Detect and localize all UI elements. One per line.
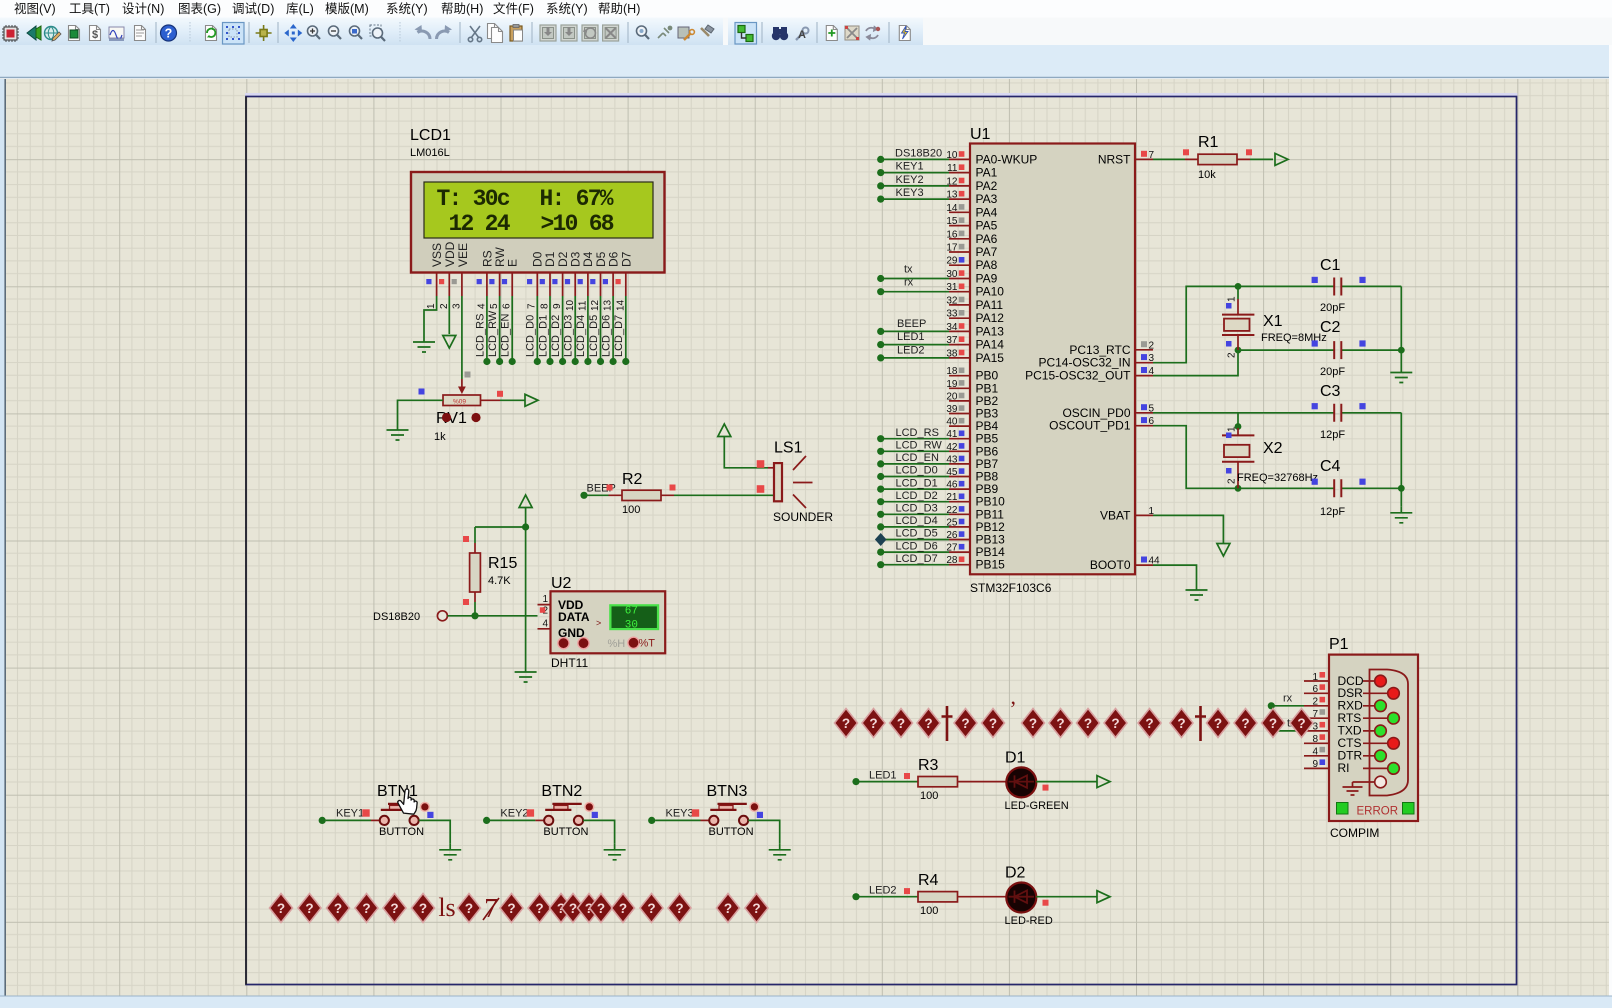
P1 error squares bbox=[1337, 803, 1349, 815]
terminal KEY1 bbox=[319, 817, 326, 824]
capacitor C3 12pF bbox=[1312, 383, 1366, 441]
terminal LED2 bbox=[852, 893, 859, 900]
power terminal up (R15/DHT11 rail) bbox=[519, 495, 532, 508]
U1 left pin stubs bbox=[949, 159, 970, 564]
junction C4 rail bbox=[1398, 485, 1405, 492]
svg-text:$: $ bbox=[92, 29, 98, 41]
svg-text:BTN2: BTN2 bbox=[541, 783, 582, 800]
wire OSCOUT_PD1 to X2.2/C4 bbox=[1153, 426, 1401, 489]
svg-text:KEY3: KEY3 bbox=[666, 808, 694, 820]
button BTN2 bbox=[541, 783, 598, 838]
svg-text:库(L): 库(L) bbox=[286, 1, 314, 16]
svg-text:2: 2 bbox=[1227, 478, 1238, 484]
svg-text:KEY3: KEY3 bbox=[896, 187, 924, 199]
svg-text:5: 5 bbox=[489, 303, 500, 309]
svg-text:PA5: PA5 bbox=[976, 219, 998, 233]
svg-text:D4: D4 bbox=[581, 251, 595, 267]
svg-text:文件(F): 文件(F) bbox=[493, 1, 534, 16]
wire tx to P1 TXD bbox=[1278, 730, 1305, 732]
svg-text:1: 1 bbox=[1227, 296, 1238, 302]
wire VEE down to RV1 wiper bbox=[461, 296, 463, 379]
svg-text:LED-GREEN: LED-GREEN bbox=[1005, 800, 1069, 812]
svg-text:BTN1: BTN1 bbox=[377, 783, 418, 800]
svg-text:LCD_D1: LCD_D1 bbox=[538, 315, 550, 357]
button BTN1 bbox=[377, 783, 434, 838]
svg-text:PA7: PA7 bbox=[976, 245, 998, 259]
svg-text:LCD_EN: LCD_EN bbox=[500, 314, 512, 357]
svg-text:1: 1 bbox=[542, 594, 548, 605]
mouse cursor bbox=[397, 788, 419, 814]
svg-text:系统(Y): 系统(Y) bbox=[386, 2, 428, 16]
power terminal right (NRST pullup) bbox=[1275, 153, 1288, 165]
svg-text:PA13: PA13 bbox=[976, 324, 1005, 338]
svg-text:帮助(H): 帮助(H) bbox=[598, 2, 640, 16]
wire R15 top rail bbox=[475, 526, 526, 528]
power terminal right (D2) bbox=[1097, 891, 1110, 903]
svg-text:>: > bbox=[596, 618, 601, 628]
svg-text:LS1: LS1 bbox=[774, 440, 803, 457]
svg-text:7: 7 bbox=[1312, 709, 1318, 720]
svg-text:PB15: PB15 bbox=[976, 558, 1006, 572]
IC U1 STM32F103C6 body bbox=[970, 126, 1135, 595]
svg-text:DHT11: DHT11 bbox=[551, 656, 588, 670]
capacitor C1 20pF bbox=[1312, 257, 1366, 314]
svg-text:T: 30c: T: 30c bbox=[437, 186, 510, 212]
wire LED2 to R bbox=[860, 896, 919, 898]
svg-text:2: 2 bbox=[1312, 697, 1318, 708]
resistor R2 100 bbox=[609, 471, 676, 516]
button BTN3 bbox=[707, 783, 764, 838]
wire BTN3 to ground bbox=[748, 820, 780, 843]
wire OSCIN_PD0 to X2.1/C3 bbox=[1153, 413, 1401, 428]
ground (BOOT0) bbox=[1186, 584, 1208, 600]
toolbar strip bbox=[0, 18, 1612, 46]
svg-text:VBAT: VBAT bbox=[1100, 508, 1131, 522]
svg-text:PC15-OSC32_OUT: PC15-OSC32_OUT bbox=[1025, 369, 1131, 383]
svg-text:FREQ=32768Hz: FREQ=32768Hz bbox=[1237, 472, 1318, 484]
LED D1 LED-GREEN bbox=[1005, 750, 1069, 813]
wire RV1 left to ground bbox=[398, 400, 444, 424]
svg-text:PC14-OSC32_IN: PC14-OSC32_IN bbox=[1038, 356, 1130, 370]
svg-text:18: 18 bbox=[946, 366, 958, 377]
svg-text:LCD_D3: LCD_D3 bbox=[896, 503, 938, 515]
svg-text:LCD_D6: LCD_D6 bbox=[601, 315, 613, 357]
svg-text:C4: C4 bbox=[1320, 458, 1341, 475]
svg-text:KEY1: KEY1 bbox=[896, 161, 924, 173]
svg-text:COMPIM: COMPIM bbox=[1330, 826, 1379, 840]
junction X1 pin1 bbox=[1235, 283, 1242, 290]
power terminal right (RV1 out) bbox=[525, 394, 538, 406]
svg-text:%T: %T bbox=[639, 638, 656, 650]
svg-text:D6: D6 bbox=[607, 251, 621, 267]
P1 indicator lines bbox=[1363, 681, 1394, 768]
svg-text:OSCOUT_PD1: OSCOUT_PD1 bbox=[1049, 419, 1131, 433]
svg-text:12pF: 12pF bbox=[1320, 506, 1345, 518]
svg-text:30: 30 bbox=[625, 620, 638, 632]
svg-text:PA1: PA1 bbox=[976, 166, 998, 180]
menu bar bbox=[0, 0, 1612, 18]
LCD pin marker squares bbox=[426, 279, 620, 284]
svg-text:系统(Y): 系统(Y) bbox=[546, 2, 588, 16]
svg-text:U2: U2 bbox=[551, 575, 572, 592]
svg-text:LCD_RW: LCD_RW bbox=[487, 310, 499, 357]
svg-text:’: ’ bbox=[1009, 696, 1016, 721]
annotation text (missing glyphs) row 1 bbox=[835, 696, 1314, 741]
P1 pin numbers and markers bbox=[1312, 672, 1318, 770]
junction X2 pin2 bbox=[1235, 485, 1242, 492]
terminal KEY3 bbox=[648, 817, 655, 824]
svg-text:模版(M): 模版(M) bbox=[325, 2, 369, 16]
svg-text:PC13_RTC: PC13_RTC bbox=[1069, 343, 1130, 357]
ground (BTN1) bbox=[439, 844, 461, 860]
svg-text:4: 4 bbox=[542, 619, 548, 630]
junction X2 pin1 bbox=[1235, 423, 1242, 430]
svg-text:LM016L: LM016L bbox=[410, 147, 450, 159]
svg-text:BUTTON: BUTTON bbox=[379, 826, 424, 838]
U1 right pin numbers and markers bbox=[1149, 150, 1161, 567]
resistor R4 100 bbox=[918, 872, 958, 917]
wire BTN2 to ground bbox=[583, 820, 615, 843]
wire RV1 right to power arrow bbox=[481, 399, 501, 401]
wire BEEP to R2 bbox=[588, 494, 609, 496]
svg-text:VEE: VEE bbox=[456, 243, 470, 267]
svg-text:LCD_D2: LCD_D2 bbox=[550, 315, 562, 357]
svg-text:LED1: LED1 bbox=[897, 331, 925, 343]
ground (DHT11 rail) bbox=[515, 666, 537, 682]
P1 pin stubs bbox=[1304, 681, 1329, 768]
svg-text:LCD_D2: LCD_D2 bbox=[896, 490, 938, 502]
terminal BEEP bbox=[580, 492, 587, 499]
junction bbox=[471, 612, 478, 619]
svg-text:ls: ls bbox=[438, 893, 455, 922]
svg-text:D7: D7 bbox=[620, 251, 634, 267]
svg-text:100: 100 bbox=[920, 790, 938, 802]
potentiometer RV1 bbox=[419, 379, 504, 443]
pale strip below toolbar bbox=[0, 45, 1612, 78]
toolbar icons bbox=[2, 22, 910, 44]
svg-text:LED2: LED2 bbox=[897, 344, 925, 356]
svg-text:LCD_D3: LCD_D3 bbox=[563, 315, 575, 357]
svg-text:rx: rx bbox=[1283, 693, 1293, 705]
svg-text:H: 67%: H: 67% bbox=[540, 186, 614, 212]
svg-text:PA2: PA2 bbox=[976, 179, 998, 193]
svg-text:VDD: VDD bbox=[443, 241, 457, 267]
resistor R1 10k bbox=[1183, 134, 1252, 181]
svg-text:29: 29 bbox=[946, 256, 958, 267]
svg-text:DS18B20: DS18B20 bbox=[373, 611, 420, 623]
svg-text:7: 7 bbox=[527, 303, 538, 309]
svg-text:PA6: PA6 bbox=[976, 232, 998, 246]
U1 left net wires and terminals bbox=[884, 159, 949, 564]
svg-text:10: 10 bbox=[565, 299, 576, 311]
right window edge bbox=[1609, 45, 1612, 997]
svg-text:>10 68: >10 68 bbox=[541, 211, 614, 237]
svg-text:32: 32 bbox=[946, 295, 958, 306]
svg-text:17: 17 bbox=[946, 243, 958, 254]
LCD pin stubs 1-14 bbox=[437, 273, 626, 296]
svg-text:13: 13 bbox=[603, 299, 614, 311]
svg-text:4: 4 bbox=[1312, 747, 1318, 758]
resistor R3 100 bbox=[918, 757, 958, 802]
power terminal down (VBAT) bbox=[1217, 544, 1230, 557]
wire rx to P1 RXD bbox=[1275, 705, 1305, 707]
wire R2 to LS1 bbox=[674, 494, 774, 496]
svg-text:LCD_D0: LCD_D0 bbox=[525, 315, 537, 357]
terminal DS18B20 bbox=[373, 611, 447, 623]
svg-text:BTN3: BTN3 bbox=[707, 783, 748, 800]
U1 right pin names bbox=[1025, 152, 1131, 572]
svg-text:9: 9 bbox=[1312, 759, 1318, 770]
svg-text:2: 2 bbox=[439, 303, 450, 309]
svg-text:NRST: NRST bbox=[1098, 152, 1131, 166]
svg-text:DS18B20: DS18B20 bbox=[895, 148, 942, 160]
ground (C1/C2) bbox=[1390, 367, 1412, 383]
svg-text:LCD_D5: LCD_D5 bbox=[588, 315, 600, 357]
sensor U2 DHT11 bbox=[538, 575, 666, 670]
wire LED1 to R bbox=[860, 781, 919, 783]
svg-text:R2: R2 bbox=[622, 471, 643, 488]
wire PC14-OSC32_IN to X1.1/C1 bbox=[1153, 286, 1401, 362]
LCD data/control wires with terminal dots bbox=[483, 296, 629, 365]
bottom strip bbox=[0, 997, 1612, 1008]
wire power rail vertical bbox=[525, 507, 527, 666]
svg-text:4: 4 bbox=[477, 303, 488, 309]
P1 pin5 hollow bbox=[1375, 776, 1387, 788]
svg-text:RI: RI bbox=[1338, 761, 1350, 775]
power terminal down (LCD VDD) bbox=[443, 336, 456, 349]
svg-text:视图(V): 视图(V) bbox=[14, 1, 56, 16]
svg-text:40: 40 bbox=[946, 417, 958, 428]
svg-text:LCD_EN: LCD_EN bbox=[896, 452, 939, 464]
svg-text:PA15: PA15 bbox=[976, 351, 1005, 365]
terminal LED1 bbox=[852, 778, 859, 785]
svg-text:19: 19 bbox=[946, 379, 958, 390]
svg-text:BUTTON: BUTTON bbox=[709, 826, 754, 838]
capacitor C4 12pF bbox=[1312, 458, 1366, 518]
svg-text:PA4: PA4 bbox=[976, 205, 998, 219]
svg-text:33: 33 bbox=[946, 309, 958, 320]
ground (BTN2) bbox=[604, 844, 626, 860]
svg-text:A: A bbox=[798, 29, 806, 41]
svg-text:P1: P1 bbox=[1329, 636, 1349, 653]
svg-text:KEY1: KEY1 bbox=[336, 808, 364, 820]
svg-text:R1: R1 bbox=[1198, 134, 1219, 151]
svg-text:DATA: DATA bbox=[558, 610, 590, 624]
LCD LCD1 (LM016L) bbox=[410, 127, 665, 311]
svg-text:2: 2 bbox=[1149, 340, 1155, 351]
svg-text:11: 11 bbox=[578, 300, 589, 311]
svg-text:R15: R15 bbox=[488, 555, 517, 572]
svg-text:X2: X2 bbox=[1263, 440, 1283, 457]
svg-text:39: 39 bbox=[946, 404, 958, 415]
svg-text:LCD_D4: LCD_D4 bbox=[896, 515, 938, 527]
sounder LS1 bbox=[757, 440, 834, 525]
LED D2 LED-RED bbox=[1005, 865, 1053, 928]
capacitor C2 20pF bbox=[1312, 319, 1366, 378]
svg-text:R3: R3 bbox=[918, 757, 939, 774]
svg-text:工具(T): 工具(T) bbox=[69, 2, 110, 16]
svg-text:R4: R4 bbox=[918, 872, 939, 889]
svg-text:LCD_D6: LCD_D6 bbox=[896, 540, 938, 552]
sheet border bbox=[245, 93, 1518, 97]
svg-text:RV1: RV1 bbox=[436, 410, 467, 427]
svg-text:U1: U1 bbox=[970, 126, 991, 143]
svg-text:LCD_RW: LCD_RW bbox=[896, 440, 943, 452]
junction bbox=[522, 523, 529, 530]
svg-text:VSS: VSS bbox=[430, 243, 444, 267]
svg-text:E: E bbox=[506, 259, 520, 267]
svg-text:rx: rx bbox=[904, 277, 914, 289]
svg-text:SOUNDER: SOUNDER bbox=[773, 510, 833, 524]
svg-text:9: 9 bbox=[552, 303, 563, 309]
svg-text:16: 16 bbox=[946, 229, 958, 240]
svg-text:BUTTON: BUTTON bbox=[543, 826, 588, 838]
svg-text:BEEP: BEEP bbox=[897, 318, 926, 330]
svg-text:D1: D1 bbox=[543, 251, 557, 267]
svg-text:1: 1 bbox=[426, 303, 437, 309]
svg-text:%09: %09 bbox=[453, 399, 466, 406]
ground (RV1) bbox=[387, 424, 409, 440]
svg-text:设计(N): 设计(N) bbox=[122, 1, 164, 16]
wire R4 to D2 bbox=[958, 896, 1007, 898]
P1 DB9 outline bbox=[1370, 670, 1409, 796]
svg-text:20: 20 bbox=[946, 391, 958, 402]
wire PC15-OSC32_OUT to X1.2/C2 bbox=[1153, 350, 1401, 376]
svg-text:12: 12 bbox=[590, 299, 601, 311]
svg-text:C3: C3 bbox=[1320, 383, 1341, 400]
svg-text:?: ? bbox=[165, 27, 173, 41]
svg-text:8: 8 bbox=[1312, 734, 1318, 745]
LCD pin names (rotated) bbox=[430, 241, 634, 267]
svg-text:1: 1 bbox=[1227, 426, 1238, 432]
svg-text:1: 1 bbox=[1312, 672, 1318, 683]
ground (C3/C4) bbox=[1390, 507, 1412, 523]
svg-text:LCD_D7: LCD_D7 bbox=[896, 553, 938, 565]
wire DS18B20 to DHT11 DATA bbox=[447, 615, 537, 617]
svg-text:100: 100 bbox=[622, 504, 640, 516]
wire BTN1 to ground bbox=[419, 820, 451, 843]
svg-text:1k: 1k bbox=[434, 431, 446, 443]
svg-text:10k: 10k bbox=[1198, 169, 1216, 181]
crystal X1 FREQ=8MHz bbox=[1222, 286, 1327, 358]
svg-text:LCD_D0: LCD_D0 bbox=[896, 465, 938, 477]
svg-text:PA14: PA14 bbox=[976, 338, 1005, 352]
wire R15 bottom to DATA net bbox=[474, 602, 476, 616]
LCD pin numbers bbox=[426, 299, 627, 311]
wire VDD to power bbox=[448, 296, 450, 334]
svg-text:4.7K: 4.7K bbox=[488, 575, 511, 587]
svg-text:X1: X1 bbox=[1263, 313, 1283, 330]
wire D2 to output arrow bbox=[1036, 896, 1097, 898]
svg-text:D2: D2 bbox=[1005, 865, 1026, 882]
crystal X2 FREQ=32768Hz bbox=[1222, 426, 1318, 488]
svg-text:20pF: 20pF bbox=[1320, 366, 1345, 378]
wire KEY1 to BTN1 bbox=[326, 819, 371, 821]
svg-text:8: 8 bbox=[540, 303, 551, 309]
svg-text:20pF: 20pF bbox=[1320, 302, 1345, 314]
svg-text:D1: D1 bbox=[1005, 750, 1026, 767]
svg-text:6: 6 bbox=[502, 303, 513, 309]
P1 pin names bbox=[1338, 674, 1364, 775]
svg-text:LCD_D1: LCD_D1 bbox=[896, 477, 938, 489]
wire D1 to output arrow bbox=[1036, 781, 1097, 783]
svg-text:图表(G): 图表(G) bbox=[178, 2, 221, 16]
svg-text:%H: %H bbox=[608, 638, 626, 650]
svg-text:ERROR: ERROR bbox=[1357, 806, 1399, 818]
power terminal right (D1) bbox=[1097, 776, 1110, 788]
ground (LCD VSS) bbox=[413, 336, 435, 352]
svg-text:LCD_D4: LCD_D4 bbox=[575, 315, 587, 357]
svg-text:PA8: PA8 bbox=[976, 258, 998, 272]
svg-text:调试(D): 调试(D) bbox=[232, 1, 274, 16]
svg-text:STM32F103C6: STM32F103C6 bbox=[970, 581, 1052, 595]
junction C2 rail bbox=[1398, 347, 1405, 354]
svg-text:12pF: 12pF bbox=[1320, 429, 1345, 441]
svg-text:C2: C2 bbox=[1320, 319, 1341, 336]
resistor R15 4.7K bbox=[463, 527, 517, 605]
P1 internal ground bbox=[1343, 782, 1363, 795]
svg-text:KEY2: KEY2 bbox=[896, 174, 924, 186]
svg-text:tx: tx bbox=[904, 263, 913, 275]
svg-text:LED2: LED2 bbox=[869, 885, 897, 897]
svg-text:LCD_D7: LCD_D7 bbox=[613, 315, 625, 357]
svg-text:PA12: PA12 bbox=[976, 311, 1005, 325]
svg-text:67: 67 bbox=[625, 606, 638, 618]
junction X1 pin2 bbox=[1235, 347, 1242, 354]
svg-text:2: 2 bbox=[1227, 352, 1238, 358]
svg-text:LED-RED: LED-RED bbox=[1005, 915, 1053, 927]
svg-text:BOOT0: BOOT0 bbox=[1090, 558, 1131, 572]
svg-text:PA10: PA10 bbox=[976, 285, 1005, 299]
svg-text:3: 3 bbox=[452, 303, 463, 309]
annotation text (missing glyphs) row 2 bbox=[270, 893, 769, 923]
svg-text:C1: C1 bbox=[1320, 257, 1341, 274]
P1 indicator LEDs bbox=[1375, 675, 1387, 687]
svg-text:PA9: PA9 bbox=[976, 272, 998, 286]
wire C3/C4 right rail bbox=[1400, 413, 1402, 507]
svg-text:100: 100 bbox=[920, 905, 938, 917]
svg-text:12 24: 12 24 bbox=[449, 211, 511, 237]
svg-text:OSCIN_PD0: OSCIN_PD0 bbox=[1062, 406, 1130, 420]
U1 left pin names bbox=[976, 152, 1038, 571]
svg-text:KEY2: KEY2 bbox=[500, 808, 528, 820]
wire VSS to ground bbox=[424, 296, 437, 336]
svg-text:LCD_RS: LCD_RS bbox=[475, 314, 487, 357]
wire LS1 top bbox=[724, 436, 768, 468]
connector P1 COMPIM body bbox=[1329, 636, 1418, 840]
wire VBAT bbox=[1153, 515, 1223, 544]
svg-text:LCD_D5: LCD_D5 bbox=[896, 528, 938, 540]
wire NRST to R1 bbox=[1153, 158, 1185, 160]
wire BOOT0 to ground bbox=[1153, 565, 1197, 584]
ground (BTN3) bbox=[769, 844, 791, 860]
power terminal up (LS1) bbox=[718, 424, 731, 437]
wire KEY3 to BTN3 bbox=[655, 819, 700, 821]
vertical net labels LCD_RS..LCD_D7 bbox=[475, 310, 626, 357]
svg-text:PA11: PA11 bbox=[976, 298, 1004, 312]
U1 right pin stubs bbox=[1135, 159, 1153, 565]
svg-text:15: 15 bbox=[946, 216, 958, 227]
svg-text:PA3: PA3 bbox=[976, 192, 998, 206]
svg-text:14: 14 bbox=[616, 299, 627, 311]
svg-text:14: 14 bbox=[946, 203, 958, 214]
terminal KEY2 bbox=[483, 817, 490, 824]
svg-text:LED1: LED1 bbox=[869, 769, 897, 781]
wire R1 to power arrow bbox=[1250, 158, 1273, 160]
wire C1/C2 right rail bbox=[1400, 286, 1402, 366]
svg-text:帮助(H): 帮助(H) bbox=[441, 2, 483, 16]
svg-text:LCD1: LCD1 bbox=[410, 127, 451, 144]
